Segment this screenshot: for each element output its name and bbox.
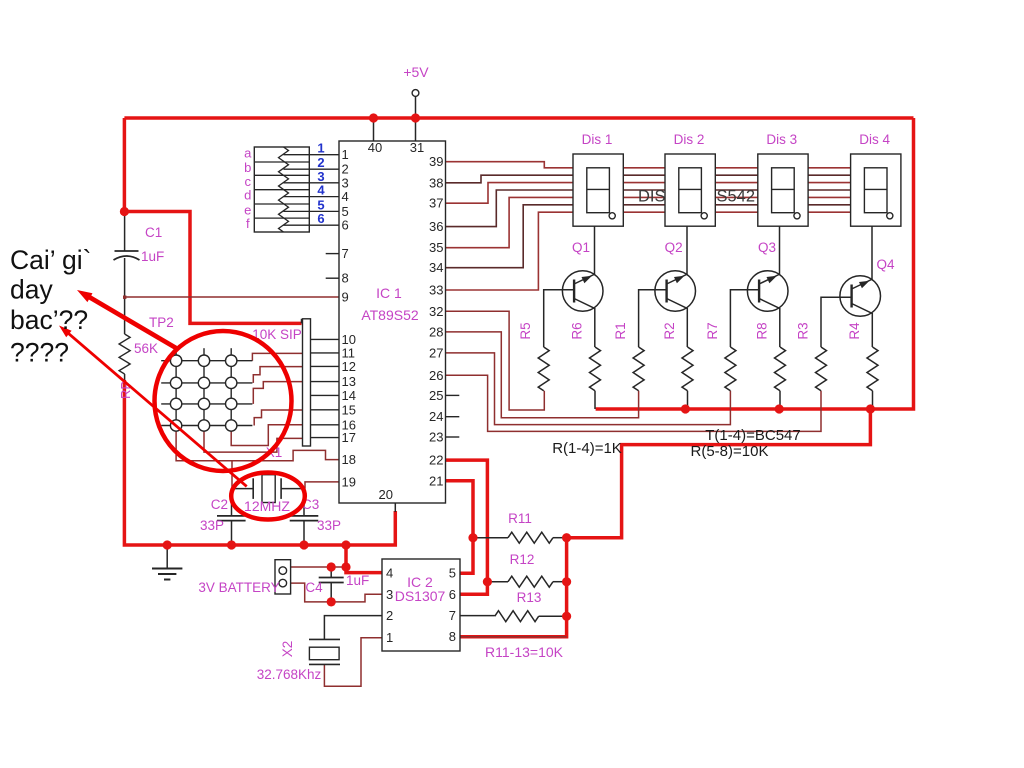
svg-text:7: 7 [449,608,456,623]
svg-text:TP2: TP2 [149,315,174,330]
svg-text:3: 3 [386,587,393,602]
svg-text:e: e [244,202,251,217]
svg-text:Dis 4: Dis 4 [859,132,890,147]
svg-text:23: 23 [429,430,443,445]
svg-text:21: 21 [429,473,443,488]
svg-text:1: 1 [386,630,393,645]
svg-text:f: f [246,216,250,231]
svg-text:32: 32 [429,304,443,319]
svg-text:19: 19 [342,474,356,489]
svg-text:bac’??: bac’?? [10,305,88,335]
svg-text:Dis 2: Dis 2 [674,132,705,147]
svg-text:+5V: +5V [403,64,429,80]
svg-text:36: 36 [429,219,443,234]
svg-text:Cai’ gi`: Cai’ gi` [10,245,91,275]
svg-text:4: 4 [342,189,349,204]
svg-text:32.768Khz: 32.768Khz [257,667,322,682]
svg-text:22: 22 [429,453,443,468]
svg-text:26: 26 [429,368,443,383]
svg-text:4: 4 [317,183,325,198]
svg-text:33P: 33P [317,518,341,533]
svg-text:R11-13=10K: R11-13=10K [485,644,564,660]
svg-text:31: 31 [410,140,424,155]
svg-text:R2: R2 [662,322,677,339]
svg-text:5: 5 [317,197,324,212]
svg-text:Q4: Q4 [876,257,895,272]
svg-text:5: 5 [449,566,456,581]
svg-text:6: 6 [449,587,456,602]
svg-text:R11: R11 [508,511,532,526]
svg-text:34: 34 [429,260,443,275]
svg-text:2: 2 [386,608,393,623]
svg-text:3: 3 [317,169,324,184]
svg-text:38: 38 [429,175,443,190]
svg-text:1: 1 [342,147,349,162]
svg-text:37: 37 [429,196,443,211]
svg-text:35: 35 [429,240,443,255]
svg-text:13: 13 [342,374,356,389]
svg-text:39: 39 [429,154,443,169]
svg-text:56K: 56K [134,341,158,356]
svg-text:17: 17 [342,430,356,445]
svg-text:1uF: 1uF [141,249,164,264]
svg-text:R(1-4)=1K: R(1-4)=1K [552,440,622,457]
svg-text:C4: C4 [305,580,323,595]
svg-text:IC 1: IC 1 [376,285,402,301]
svg-text:R5: R5 [518,322,533,339]
svg-text:R12: R12 [510,552,535,567]
svg-text:28: 28 [429,324,443,339]
svg-text:R13: R13 [517,590,542,605]
svg-text:DS1307: DS1307 [395,588,446,604]
svg-text:Q1: Q1 [572,240,590,255]
svg-text:Q3: Q3 [758,240,776,255]
svg-text:15: 15 [342,402,356,417]
svg-text:6: 6 [342,218,349,233]
svg-text:1: 1 [317,141,324,156]
svg-text:27: 27 [429,345,443,360]
svg-text:R1: R1 [613,322,628,339]
svg-text:12: 12 [342,359,356,374]
svg-text:R3: R3 [796,322,811,339]
svg-text:33P: 33P [200,518,224,533]
svg-text:c: c [245,174,252,189]
svg-text:8: 8 [342,271,349,286]
svg-text:S542: S542 [717,188,756,206]
svg-text:Dis 3: Dis 3 [766,132,797,147]
svg-text:4: 4 [386,566,393,581]
svg-text:3: 3 [342,175,349,190]
svg-text:day: day [10,275,53,305]
svg-text:R8: R8 [755,322,770,339]
svg-text:1uF: 1uF [346,573,369,588]
svg-text:DIS: DIS [638,188,666,206]
svg-text:40: 40 [368,140,382,155]
svg-text:14: 14 [342,388,356,403]
svg-text:24: 24 [429,409,443,424]
svg-text:25: 25 [429,388,443,403]
svg-text:T(1-4)=BC547: T(1-4)=BC547 [705,427,800,444]
svg-text:12MHZ: 12MHZ [244,498,290,514]
svg-text:C1: C1 [145,225,162,240]
svg-text:X2: X2 [280,641,295,658]
svg-text:3V BATTERY: 3V BATTERY [198,580,279,595]
svg-text:6: 6 [317,211,324,226]
svg-text:8: 8 [449,629,456,644]
svg-text:R(5-8)=10K: R(5-8)=10K [691,443,769,460]
svg-text:Q2: Q2 [665,240,683,255]
svg-text:AT89S52: AT89S52 [361,307,419,323]
svg-text:7: 7 [342,246,349,261]
svg-text:R4: R4 [847,322,862,340]
svg-text:33: 33 [429,283,443,298]
svg-text:????: ???? [10,337,69,367]
svg-text:9: 9 [342,290,349,305]
svg-text:20: 20 [379,487,393,502]
svg-text:5: 5 [342,204,349,219]
svg-text:d: d [244,188,251,203]
svg-text:R6: R6 [570,322,585,339]
svg-text:Dis 1: Dis 1 [582,132,613,147]
svg-text:C2: C2 [211,497,228,512]
svg-text:18: 18 [342,452,356,467]
svg-text:R7: R7 [705,322,720,339]
svg-text:a: a [244,146,252,161]
